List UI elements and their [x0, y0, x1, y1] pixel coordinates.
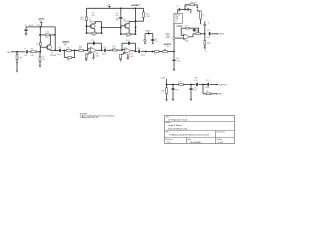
op-amp U1B	[125, 48, 134, 58]
node cell2 mid	[135, 27, 137, 29]
label LED1	[145, 31, 150, 33]
svg-text:10K: 10K	[178, 82, 182, 84]
svg-text:R27: R27	[185, 26, 188, 28]
node IN input	[7, 51, 12, 54]
svg-text:C9: C9	[24, 25, 26, 27]
wire B-out	[131, 50, 138, 53]
wire to LED node	[211, 93, 218, 94]
svg-text:C17: C17	[126, 40, 129, 42]
wire node down R29	[204, 34, 206, 41]
wire A feedback up	[87, 43, 89, 50]
resistor R29 100K	[204, 41, 212, 46]
svg-text:Author: Author	[166, 121, 172, 124]
node inner-left	[39, 34, 41, 36]
node bias j1	[172, 84, 174, 86]
wire T1 emitter down	[93, 28, 96, 32]
svg-text:R28: R28	[196, 31, 199, 33]
wire vertical right of stage1	[54, 27, 56, 51]
resistor R33	[206, 91, 211, 95]
ground opto right	[196, 7, 198, 8]
wire C11 to J2	[62, 49, 65, 51]
svg-text:.1u: .1u	[207, 22, 209, 24]
capacitor C9 bypass	[25, 30, 29, 32]
ground C25	[190, 99, 192, 100]
svg-text:1K: 1K	[202, 14, 205, 16]
capacitor C24	[172, 89, 179, 92]
wire B minus lead	[122, 48, 125, 50]
svg-text:10K: 10K	[161, 91, 165, 93]
wire out branch top	[203, 84, 207, 86]
svg-text:10uF: 10uF	[206, 37, 210, 39]
svg-text:U2A: U2A	[185, 39, 189, 42]
resistor R11 cell1	[92, 32, 96, 37]
svg-text:C11: C11	[58, 47, 61, 49]
capacitor C21 fb	[193, 28, 199, 32]
svg-text:R5: R5	[42, 57, 44, 59]
wire C25 gnd	[190, 90, 192, 99]
wire top-left down to cap	[25, 27, 27, 29]
wire J6 down to cap	[173, 52, 175, 60]
svg-text:10K: 10K	[64, 45, 68, 47]
svg-text:10 Feb 2006: 10 Feb 2006	[190, 142, 201, 144]
wire cap row drops	[178, 9, 191, 13]
svg-text:2N5088: 2N5088	[89, 21, 96, 23]
label cell1 cap values	[92, 13, 96, 17]
svg-text:C12: C12	[45, 32, 48, 34]
wire pot to J6	[167, 51, 174, 53]
wire cap to ground	[25, 32, 27, 34]
resistor R6 lower loop	[67, 57, 72, 62]
wire A minus lead	[88, 48, 91, 50]
node J2	[63, 50, 65, 52]
wire opto vert lower	[173, 39, 175, 51]
wire top feedback	[26, 26, 55, 28]
wire Q1 emitter to rail	[49, 49, 51, 52]
svg-text:250K: 250K	[146, 16, 151, 18]
wire bias rail	[167, 84, 207, 86]
node opto mid	[184, 9, 186, 11]
node cell2 bot-r	[135, 33, 137, 35]
node OUTPUT	[218, 84, 227, 86]
wire cell1 left vert	[86, 20, 88, 33]
wire cell1 bottom	[87, 32, 102, 34]
svg-text:1K: 1K	[154, 53, 157, 55]
resistor R9 series	[153, 51, 163, 56]
wire C1 to R4	[29, 51, 32, 53]
svg-text:2N5088: 2N5088	[50, 55, 56, 57]
transistor T2	[123, 19, 130, 28]
wire input to junction	[12, 51, 17, 53]
svg-text:+: +	[28, 30, 29, 32]
wire T1 base lead	[87, 25, 91, 27]
svg-text:4K7: 4K7	[126, 36, 129, 38]
label +9VBATT	[131, 4, 141, 7]
ground vref	[165, 100, 168, 102]
resistor R25 1K	[197, 9, 205, 19]
wire link cells	[102, 27, 121, 29]
power cross faint	[204, 49, 207, 52]
svg-text:10uF: 10uF	[141, 55, 146, 57]
wire bias lower	[39, 52, 41, 57]
svg-text:LFO Speed ctrl mod: LFO Speed ctrl mod	[168, 118, 187, 121]
resistor R28 out	[196, 31, 201, 35]
wire T2 collector loop	[128, 21, 135, 23]
power flag +9V	[107, 5, 111, 9]
svg-text:10K: 10K	[30, 55, 34, 57]
wire U2A fb top	[181, 27, 198, 29]
node out junction	[204, 33, 206, 35]
svg-text:100K: 100K	[166, 37, 171, 39]
resistor R8 to gnd	[120, 54, 122, 59]
svg-text:C26: C26	[194, 80, 197, 82]
LED D1 circle	[144, 39, 147, 42]
capacitor C22 up	[203, 22, 209, 26]
wire U1B gnd pin	[127, 54, 129, 58]
svg-text:BT1: BT1	[37, 25, 40, 27]
wire opto top loop	[185, 4, 197, 6]
wire C18 to J4	[141, 50, 146, 52]
node junction J1	[16, 51, 18, 53]
ground below R7	[85, 59, 87, 60]
svg-text:R3: R3	[36, 44, 38, 46]
resistor R14 series	[64, 48, 74, 52]
label LDR block	[165, 33, 171, 39]
wire T1 collector loop	[94, 22, 102, 33]
node T1 base	[86, 25, 88, 27]
ground below R5	[39, 66, 42, 68]
wire led to gnd	[144, 42, 146, 44]
svg-text:C7: C7	[176, 6, 178, 8]
capacitor C7	[176, 6, 180, 11]
wire cell2 bottom	[121, 33, 136, 35]
wire bias cap2 down	[190, 85, 192, 88]
wire A feedback top	[88, 42, 102, 44]
node OUT1	[219, 33, 225, 35]
wire B plus lead	[121, 52, 125, 54]
svg-text:27K: 27K	[80, 19, 84, 21]
wire J4-J5	[146, 51, 153, 53]
svg-text:VTL5C: VTL5C	[176, 26, 183, 28]
resistor R7 to gnd	[85, 54, 87, 59]
wire U2A fb down	[198, 28, 200, 34]
wire RV1 top lead	[143, 8, 145, 12]
LED2 circle on vert	[173, 37, 175, 39]
node label Vref	[160, 78, 166, 80]
node cell1 bot-l	[86, 32, 88, 34]
svg-text:1M: 1M	[116, 20, 119, 22]
wire B feedback down	[135, 43, 137, 51]
node base junction	[39, 51, 41, 53]
svg-text:47u: 47u	[45, 37, 48, 39]
svg-text:OUT1: OUT1	[219, 33, 225, 35]
transistor Q1	[46, 45, 56, 57]
wire cell1 left vert top	[86, 8, 88, 17]
wire inner feedback	[40, 34, 55, 36]
capacitor C8	[185, 6, 188, 11]
node bias j2	[190, 84, 192, 86]
label opto name	[176, 26, 183, 28]
svg-text:.01u: .01u	[92, 15, 96, 17]
node cell2 lower tap	[135, 30, 137, 32]
wire out branch bottom	[203, 85, 206, 94]
wire B feedback top	[122, 42, 136, 44]
svg-text:47uF: 47uF	[175, 90, 179, 92]
node T2 base	[120, 27, 122, 29]
svg-text:MPSA18: MPSA18	[63, 40, 70, 43]
svg-text:TL062: TL062	[128, 56, 133, 58]
capacitor C15 feedback	[91, 40, 94, 45]
wire R16 to opamp A	[83, 49, 87, 51]
wire R25 down arrow	[200, 19, 201, 25]
wire R17 to B-in	[117, 49, 122, 51]
wire opto loop left down	[184, 5, 186, 10]
ground U1B	[126, 58, 129, 60]
wire RV1 bottom	[136, 17, 144, 21]
wire T2 base lead	[121, 26, 126, 28]
svg-text:2. Based on LPB Ckt.: 2. Based on LPB Ckt.	[80, 116, 99, 119]
wire circle to U2A	[175, 37, 184, 39]
wire R29 gnd	[204, 45, 206, 47]
capacitor C3 .01u	[115, 13, 122, 18]
label R32	[195, 77, 198, 79]
svg-text:OUTPUT: OUTPUT	[218, 84, 227, 86]
svg-text:10u: 10u	[155, 41, 158, 43]
resistor R24	[190, 2, 198, 6]
wire C24 gnd	[172, 90, 174, 99]
resistor R27 fb	[185, 26, 190, 29]
wire opto loop right down	[196, 5, 198, 7]
node led junction	[148, 33, 150, 35]
ground C24	[172, 99, 174, 100]
resistor R5 bias lower	[39, 57, 46, 62]
svg-text:.47uF: .47uF	[176, 61, 181, 63]
wire to OUTPUT	[210, 84, 218, 85]
capacitor C23 out	[206, 30, 210, 39]
node LED out	[218, 94, 224, 96]
wire node up cap	[204, 26, 206, 34]
capacitor C19	[173, 58, 182, 63]
svg-text:Sheets: Sheets	[217, 138, 223, 141]
wire cell2 left vert	[120, 19, 122, 34]
svg-text:C8: C8	[185, 6, 187, 8]
svg-text:U3: U3	[175, 21, 177, 23]
node bias j3	[202, 84, 204, 86]
svg-text:R24 10K: R24 10K	[190, 2, 198, 4]
wire stage1 out rail	[50, 49, 59, 51]
wire A feedback down	[101, 43, 103, 50]
svg-text:Document: Document	[217, 131, 226, 134]
wire led left branch	[144, 34, 146, 39]
svg-text:C18: C18	[137, 48, 140, 50]
wire C19 to gnd	[173, 62, 175, 69]
svg-text:TL062: TL062	[94, 55, 99, 57]
svg-text:4.7uF: 4.7uF	[57, 54, 62, 56]
svg-text:100K: 100K	[207, 43, 212, 45]
capacitor C26 rail	[194, 80, 198, 89]
wire base lead Q1	[40, 46, 47, 48]
node J3	[74, 50, 76, 52]
resistor R30 vref	[161, 88, 167, 94]
capacitor C11 4.7uF	[57, 47, 62, 56]
resistor R16 series	[79, 46, 84, 52]
resistor R31 bias	[178, 82, 183, 86]
wire opto cap row	[178, 8, 191, 10]
wire cap right branch	[152, 34, 154, 39]
ground below R8	[119, 60, 121, 61]
wire R4 to base node	[36, 51, 40, 53]
op-amp U2A	[184, 34, 190, 43]
wire R28 to node	[200, 33, 205, 35]
svg-text:File: File	[166, 132, 169, 134]
svg-text:Date: Date	[187, 138, 191, 141]
svg-text:C16: C16	[103, 47, 106, 49]
node J6	[173, 51, 175, 53]
svg-text:C23: C23	[207, 30, 210, 32]
svg-text:+4.5V: +4.5V	[160, 78, 166, 80]
node cell2 collector	[135, 20, 137, 22]
svg-text:IN: IN	[7, 52, 10, 54]
resistor R10 27K	[80, 17, 87, 21]
node inner-right	[54, 34, 56, 36]
svg-text:10uF: 10uF	[102, 54, 107, 56]
svg-text:10K: 10K	[166, 46, 170, 48]
wire Q1 collector up	[49, 35, 51, 45]
title block	[165, 115, 235, 144]
node vref junction	[166, 84, 168, 86]
label MPSA18 block	[63, 40, 70, 46]
wire led cluster top	[145, 32, 153, 33]
wire J3 to R16	[75, 49, 79, 51]
wire bias cap1 down	[172, 85, 174, 88]
label cell2 refs	[116, 18, 119, 22]
resistor R17 series	[112, 46, 117, 51]
wire cell2 right vert	[135, 8, 137, 34]
node J4	[145, 51, 147, 53]
svg-text:+9VBATT: +9VBATT	[131, 4, 141, 7]
capacitor C27	[205, 80, 210, 89]
power port +9VDC	[38, 18, 45, 27]
svg-text:1 of 1: 1 of 1	[218, 142, 223, 144]
svg-text:E:\My Documents\LFO Speed ctrl: E:\My Documents\LFO Speed ctrl mod v1.1.…	[170, 133, 209, 136]
svg-text:47uF: 47uF	[193, 90, 197, 92]
wire U2A fb up	[181, 28, 184, 35]
label C9 values	[24, 25, 40, 27]
svg-text:Extended Engineering: Extended Engineering	[168, 128, 187, 131]
svg-text:LED+: LED+	[218, 94, 224, 96]
resistor R1 1M to ground	[16, 52, 22, 71]
wire lower loop	[64, 50, 74, 57]
ground below C19	[173, 69, 176, 71]
resistor R13 cell2	[126, 33, 130, 38]
svg-text:C27: C27	[206, 80, 209, 82]
wire opto bottom vert	[173, 23, 175, 37]
svg-text:.01u: .01u	[115, 15, 119, 17]
capacitor C17 feedback	[126, 40, 129, 45]
node J5	[152, 51, 154, 53]
capacitor C4	[151, 39, 158, 43]
wire A plus lead	[86, 52, 90, 54]
resistor RV1 250K	[143, 12, 151, 18]
op-amp U1A	[90, 47, 99, 57]
wire J1 to C1	[17, 51, 25, 53]
optocoupler U3 box	[174, 13, 182, 23]
wire to OUT1	[211, 33, 218, 34]
svg-text:100uF: 100uF	[205, 87, 210, 89]
wire U2A out	[190, 34, 196, 37]
svg-text:Doyle D. Brown: Doyle D. Brown	[168, 124, 181, 127]
resistor R4 series	[30, 48, 36, 57]
svg-text:C15: C15	[91, 40, 94, 42]
resistor R3 on vertical	[36, 43, 41, 46]
capacitor C18 10uF	[137, 48, 146, 57]
svg-text:R4: R4	[31, 48, 33, 50]
notes text	[80, 113, 115, 119]
wire A-out	[96, 49, 103, 51]
svg-text:4K7: 4K7	[92, 35, 95, 37]
ground R29	[204, 47, 206, 48]
svg-text:C1: C1	[24, 48, 26, 50]
svg-text:10K: 10K	[42, 59, 46, 61]
ground below C9	[25, 34, 28, 36]
svg-text:33K: 33K	[67, 59, 71, 61]
potentiometer VR2	[163, 49, 167, 53]
wire U1A gnd pin	[92, 53, 94, 57]
wire R5 to gnd	[39, 61, 41, 65]
wire T2 emitter down	[127, 28, 130, 33]
capacitor C1 0.1uF	[24, 48, 29, 57]
node B-out	[135, 51, 137, 53]
pad circle below R1	[16, 70, 18, 72]
label R5 47K	[45, 32, 48, 39]
svg-text:Revision: Revision	[166, 139, 173, 141]
node A-in	[87, 50, 89, 52]
node A-out	[101, 49, 103, 51]
wire C4 to gnd	[152, 41, 154, 44]
svg-text:1M: 1M	[19, 58, 22, 60]
wire vertical base-node up	[39, 27, 41, 52]
wire B feedback up	[121, 43, 123, 50]
wire vref vert	[166, 79, 168, 99]
node cell1 bot-r	[101, 32, 103, 34]
svg-text:LED1: LED1	[145, 31, 150, 33]
svg-text:R32: R32	[195, 77, 198, 79]
ground U1A	[92, 57, 95, 59]
node cell2 bot-l	[120, 33, 122, 35]
wire C16 to R17	[107, 49, 113, 51]
wire 9V rail	[87, 8, 144, 10]
wire cell2 cap top	[120, 8, 122, 16]
svg-text:Title: Title	[166, 115, 169, 118]
svg-text:47u: 47u	[194, 87, 197, 89]
capacitor C25	[190, 89, 197, 92]
label DEPTH	[164, 44, 172, 48]
node cell1 mid	[101, 27, 103, 29]
node B-in	[121, 49, 123, 51]
svg-text:2N5088: 2N5088	[123, 21, 130, 23]
svg-text:.1uF: .1uF	[24, 55, 29, 57]
node stage1 out	[54, 50, 56, 52]
capacitor C16 10uF	[102, 47, 107, 56]
transistor T1	[89, 19, 96, 28]
